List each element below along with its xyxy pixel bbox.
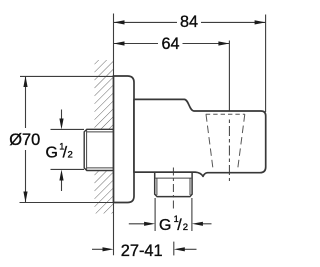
svg-text:/: / xyxy=(177,217,182,234)
inlet G1/2 arrow up xyxy=(51,169,85,191)
neck bottom edge across outlet xyxy=(134,171,197,173)
svg-text:27-41: 27-41 xyxy=(121,242,163,260)
holder centerline xyxy=(228,120,230,182)
dimension 27-41 extension right xyxy=(173,242,175,256)
dimension 84 xyxy=(114,13,266,31)
holder cone hidden lines xyxy=(206,114,245,170)
svg-text:64: 64 xyxy=(161,35,179,53)
dimension O70 extension bottom xyxy=(20,202,114,204)
dimension G1/2 bottom extension left xyxy=(154,198,156,231)
svg-text:84: 84 xyxy=(180,13,198,31)
dimension 64 xyxy=(114,35,230,53)
body neck and holder head xyxy=(134,99,266,176)
dimension O70 xyxy=(9,76,40,203)
wall hatch upper xyxy=(95,60,114,129)
svg-text:G: G xyxy=(46,145,58,162)
dimension 27-41 xyxy=(92,242,197,260)
escutcheon xyxy=(114,76,135,203)
outlet centerline xyxy=(172,168,174,210)
label G 1/2 bottom xyxy=(159,214,188,234)
svg-text:2: 2 xyxy=(183,222,188,233)
wall face line xyxy=(113,14,115,256)
dimension 64 extension line right + holder centerline xyxy=(228,41,230,112)
svg-text:Ø70: Ø70 xyxy=(9,131,40,149)
dimension 84 extension line right xyxy=(265,15,267,113)
dimension G1/2 bottom arrows xyxy=(129,222,212,226)
inlet threaded stub xyxy=(84,129,113,170)
svg-text:2: 2 xyxy=(68,150,73,161)
inlet G1/2 arrow down xyxy=(51,110,85,130)
dimension G1/2 bottom extension right xyxy=(191,198,193,231)
label G 1/2 left xyxy=(46,141,73,161)
wall hatch lower xyxy=(95,171,114,214)
dimension O70 extension top xyxy=(20,75,114,77)
svg-text:G: G xyxy=(159,217,171,234)
outlet threaded stub xyxy=(155,172,192,196)
